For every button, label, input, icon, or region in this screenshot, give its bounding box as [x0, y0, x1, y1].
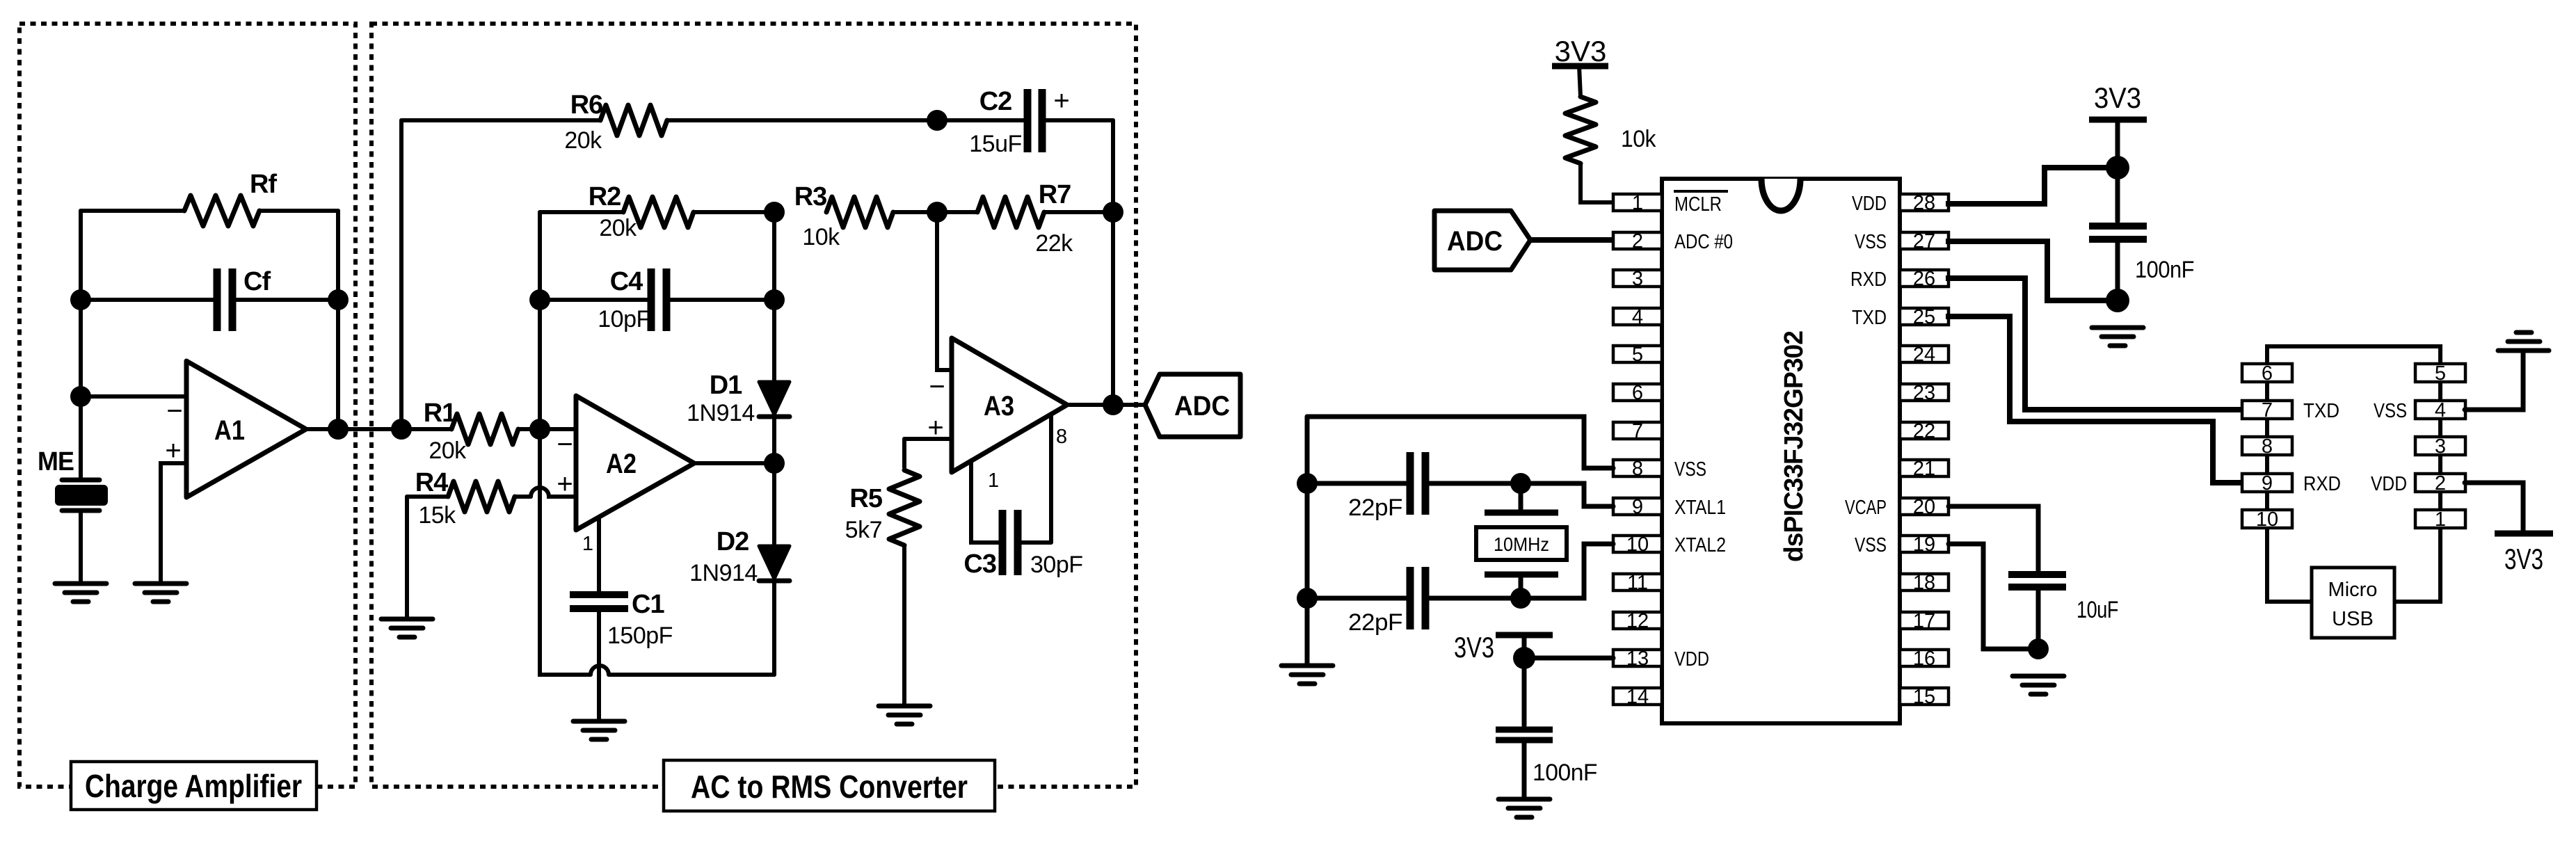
svg-text:11: 11: [1627, 572, 1648, 594]
svg-text:AC to RMS Converter: AC to RMS Converter: [691, 769, 968, 805]
ground: under 10uF: [2013, 676, 2064, 694]
svg-text:10uF: 10uF: [2077, 597, 2118, 623]
wire: to pin 28 VDD: [1949, 168, 2118, 204]
resistor R4: [407, 468, 531, 529]
USB pin 10 box: [2242, 508, 2292, 531]
pin 4 box: [1613, 306, 1662, 328]
svg-text:VDD: VDD: [1674, 648, 1709, 671]
svg-text:13: 13: [1626, 648, 1649, 670]
USB pin 2 box: [2415, 472, 2465, 495]
ground: under A1 + input: [135, 584, 186, 602]
resistor R7: [937, 180, 1113, 257]
pin 1 box: [1613, 192, 1662, 214]
node: 3V3/VDD28 junction: [2106, 156, 2129, 179]
capacitor C1 150pF: [570, 517, 673, 720]
node: XTAL2 junction: [1510, 588, 1531, 609]
svg-text:100nF: 100nF: [2135, 257, 2194, 283]
svg-text:VSS: VSS: [2374, 400, 2407, 422]
svg-text:150pF: 150pF: [607, 623, 673, 649]
IC U1 dsPIC33FJ32GP302 body: [1662, 179, 1900, 723]
pin 26 box: [1900, 268, 1949, 290]
wire: diode rail: [772, 212, 776, 675]
pin 19 box: [1900, 533, 1949, 556]
pin 20 box: [1900, 496, 1949, 518]
wire: C2/R7 right rail: [1111, 120, 1115, 405]
svg-text:XTAL1: XTAL1: [1674, 497, 1726, 519]
node: VDD junction: [1513, 647, 1535, 669]
pin 3 box: [1613, 268, 1662, 290]
svg-text:USB: USB: [2332, 608, 2374, 630]
ADC flag (AC-RMS output): [1145, 374, 1240, 437]
svg-text:16: 16: [1913, 648, 1935, 670]
svg-text:C1: C1: [632, 590, 664, 619]
wire: ME to ground: [79, 512, 83, 584]
node: 100nF bottom junction: [2106, 289, 2129, 312]
svg-text:1: 1: [2435, 508, 2446, 531]
wire: A2 output: [694, 461, 774, 465]
svg-text:C4: C4: [610, 267, 643, 296]
wire: A3 output: [1067, 403, 1145, 407]
svg-text:4: 4: [1632, 306, 1643, 328]
wire: USB VSS pin 4 to ground: [2465, 353, 2523, 410]
ADC flag (to ADC #0 pin): [1434, 211, 1530, 270]
svg-text:100nF: 100nF: [1533, 760, 1597, 786]
pin name MCLR with overline: [1674, 191, 1728, 216]
wire: VCAP pin 20 to 10uF: [1949, 506, 2038, 570]
svg-text:26: 26: [1913, 268, 1935, 290]
svg-text:18: 18: [1913, 572, 1935, 594]
svg-text:5: 5: [1632, 344, 1643, 366]
node: R2/R3 junction: [764, 202, 785, 223]
svg-text:VSS: VSS: [1674, 458, 1706, 481]
wire: feedback rail down and bottom return rail with hop: [540, 212, 774, 675]
svg-text:9: 9: [2262, 472, 2273, 495]
svg-text:R3: R3: [794, 182, 827, 211]
svg-text:6: 6: [2262, 362, 2273, 385]
ground: under R4: [381, 619, 433, 637]
Micro USB connector body: [2312, 568, 2394, 638]
USB pin 9 box: [2242, 472, 2292, 495]
node: 22pF left (top): [1297, 473, 1318, 494]
pin 10 box: [1613, 533, 1662, 556]
svg-text:10: 10: [1626, 533, 1649, 556]
pin 17 box: [1900, 610, 1949, 632]
op-amp A3: [927, 338, 1067, 492]
svg-text:1: 1: [582, 533, 593, 555]
svg-text:−: −: [557, 429, 573, 460]
resistor R2: [540, 182, 774, 241]
svg-text:TXD: TXD: [1852, 307, 1887, 329]
USB pin 6 box: [2242, 362, 2292, 385]
svg-text:Cf: Cf: [243, 267, 271, 296]
crystal 10MHz: [1476, 483, 1567, 598]
svg-text:20k: 20k: [564, 127, 602, 154]
node: inverting input junction: [70, 386, 91, 407]
capacitor 100nF (VDD decoupling): [1496, 658, 1597, 798]
wire: right feedback rail: [336, 211, 340, 429]
capacitor 100nF (right): [2089, 168, 2194, 300]
svg-text:VDD: VDD: [1852, 193, 1887, 215]
svg-text:R6: R6: [570, 90, 603, 120]
USB right column rail: [2394, 382, 2440, 602]
wire: RXD pin 26 to USB TXD pin 7: [1949, 278, 2242, 410]
wire: to pin 13: [1524, 656, 1613, 661]
wire: A1 non-inverting input to ground: [161, 463, 186, 581]
node: A2 inverting junction: [529, 419, 550, 440]
USB pin 1 box: [2415, 508, 2465, 531]
pin 14 box: [1613, 686, 1662, 708]
svg-text:dsPIC33FJ32GP302: dsPIC33FJ32GP302: [1779, 331, 1809, 562]
node: 10uF/VSS junction: [2028, 639, 2049, 659]
supply 3V3 (VDD pin 13): [1454, 631, 1553, 664]
dashed box: AC to RMS Converter block: [371, 24, 1136, 787]
supply 3V3 (top, via 10k to MCLR): [1552, 35, 1608, 67]
svg-text:VDD: VDD: [2371, 473, 2407, 495]
ground: under ME: [55, 584, 106, 602]
svg-text:C3: C3: [963, 549, 996, 579]
svg-text:22pF: 22pF: [1348, 609, 1402, 636]
svg-text:1: 1: [1632, 192, 1643, 214]
svg-text:21: 21: [1913, 458, 1935, 480]
capacitor 22pF (XTAL2): [1307, 567, 1521, 636]
ground: under right 100nF: [2092, 328, 2143, 346]
pin 27 box: [1900, 230, 1949, 252]
svg-text:D1: D1: [710, 371, 742, 400]
node: C4 right: [764, 289, 785, 310]
svg-text:VSS: VSS: [1855, 231, 1887, 253]
svg-text:2: 2: [2435, 472, 2446, 495]
wire: left feedback rail: [79, 211, 83, 479]
svg-text:R7: R7: [1039, 180, 1071, 209]
svg-text:+: +: [1053, 86, 1069, 116]
pin 8 box: [1613, 458, 1662, 480]
svg-text:R2: R2: [589, 182, 621, 211]
svg-text:10MHz: 10MHz: [1494, 533, 1549, 555]
ground: crystal rail: [1281, 666, 1333, 684]
svg-text:3V3: 3V3: [1454, 631, 1494, 664]
svg-text:25: 25: [1913, 306, 1935, 328]
node: A2 output / diode junction: [764, 453, 785, 474]
capacitor 10uF: [2008, 575, 2118, 649]
pin 18 box: [1900, 572, 1949, 594]
resistor R1: [424, 399, 576, 464]
pin 12 box: [1613, 610, 1662, 632]
svg-text:1: 1: [988, 469, 999, 492]
svg-text:15: 15: [1913, 686, 1935, 708]
svg-text:10pF: 10pF: [598, 306, 650, 332]
svg-text:23: 23: [1913, 382, 1935, 404]
svg-text:1N914: 1N914: [689, 560, 758, 586]
capacitor Cf: [81, 267, 338, 331]
ground: under 100nF: [1498, 799, 1550, 817]
svg-text:22: 22: [1913, 420, 1935, 442]
svg-text:VCAP: VCAP: [1845, 497, 1887, 519]
ground: under R5: [879, 706, 930, 724]
svg-text:VSS: VSS: [1855, 534, 1887, 556]
wire: A1 output row: [306, 427, 451, 431]
pin 13 box: [1613, 648, 1662, 670]
svg-text:8: 8: [2262, 435, 2273, 458]
svg-text:RXD: RXD: [1850, 268, 1887, 291]
svg-text:7: 7: [1632, 420, 1643, 442]
svg-text:3V3: 3V3: [2094, 81, 2141, 114]
svg-text:8: 8: [1632, 458, 1643, 480]
svg-text:10: 10: [2256, 508, 2278, 531]
dashed box: Charge Amplifier block: [19, 24, 355, 787]
microphone element ME: [38, 447, 108, 511]
svg-text:15k: 15k: [418, 502, 456, 529]
svg-text:2: 2: [1632, 230, 1643, 252]
USB pin 3 box: [2415, 435, 2465, 458]
wire: XTAL2 to pin 10: [1521, 544, 1613, 598]
resistor R5 5k7: [845, 439, 920, 705]
svg-text:12: 12: [1626, 610, 1649, 632]
USB pin 4 box: [2415, 399, 2465, 421]
svg-text:24: 24: [1913, 344, 1935, 366]
svg-text:27: 27: [1913, 230, 1935, 252]
svg-text:4: 4: [2435, 399, 2446, 421]
svg-text:30pF: 30pF: [1030, 552, 1083, 578]
node: Cf left: [70, 289, 91, 310]
svg-text:R5: R5: [849, 484, 882, 513]
svg-text:5k7: 5k7: [845, 517, 882, 543]
svg-text:17: 17: [1913, 610, 1935, 632]
wire: R4 to ground: [405, 497, 409, 618]
node: XTAL1 junction: [1510, 473, 1531, 494]
pin 28 box: [1900, 192, 1949, 214]
resistor R3: [794, 182, 937, 250]
pin 24 box: [1900, 344, 1949, 366]
svg-text:ME: ME: [38, 447, 74, 476]
svg-text:15uF: 15uF: [969, 131, 1022, 157]
svg-text:28: 28: [1913, 192, 1935, 214]
pin 15 box: [1900, 686, 1949, 708]
svg-text:3: 3: [1632, 268, 1643, 290]
svg-text:A1: A1: [214, 415, 245, 446]
svg-text:22pF: 22pF: [1348, 495, 1402, 521]
svg-text:22k: 22k: [1035, 230, 1073, 257]
svg-text:20k: 20k: [429, 437, 467, 464]
svg-text:10k: 10k: [1621, 126, 1656, 152]
capacitor C4: [540, 267, 774, 332]
svg-text:ADC #0: ADC #0: [1674, 231, 1733, 253]
resistor 10k (MCLR pullup): [1565, 66, 1656, 202]
wire: VSS pin 19 to 10uF bottom: [1949, 544, 2038, 649]
USB pin 5 box: [2415, 362, 2465, 385]
wire: USB VDD pin 2 to 3V3: [2465, 483, 2523, 531]
svg-text:R4: R4: [415, 468, 448, 497]
resistor R6: [401, 90, 937, 154]
svg-text:20k: 20k: [599, 215, 637, 241]
label box: AC to RMS Converter: [664, 760, 995, 811]
pin 9 box: [1613, 496, 1662, 518]
pin 23 box: [1900, 382, 1949, 404]
svg-text:A2: A2: [606, 449, 637, 479]
diode D2 1N914: [689, 527, 790, 586]
svg-text:1N914: 1N914: [687, 400, 755, 426]
supply 3V3 (USB): [2495, 533, 2553, 575]
op-amp A1: [165, 361, 306, 497]
svg-text:C2: C2: [979, 87, 1012, 116]
pin 16 box: [1900, 648, 1949, 670]
USB pin 8 box: [2242, 435, 2292, 458]
pin 7 box: [1613, 420, 1662, 442]
node: A1 output: [328, 419, 349, 440]
svg-text:TXD: TXD: [2303, 400, 2339, 422]
capacitor 22pF (XTAL1): [1307, 452, 1521, 521]
node: 22pF left (bottom): [1297, 588, 1318, 609]
node: C4 left: [529, 289, 550, 310]
svg-text:+: +: [927, 412, 943, 443]
svg-text:20: 20: [1913, 496, 1935, 518]
resistor Rf: [81, 170, 338, 226]
wire: XTAL1 to pin 9: [1521, 483, 1613, 506]
pin 22 box: [1900, 420, 1949, 442]
wire: to A3 inverting input: [937, 212, 952, 370]
node: C2/R6 junction: [927, 110, 947, 131]
svg-text:3V3: 3V3: [2504, 543, 2543, 575]
pin 6 box: [1613, 382, 1662, 404]
capacitor C3 30pF: [963, 415, 1082, 579]
svg-text:7: 7: [2262, 399, 2273, 421]
node: Cf right: [328, 289, 349, 310]
USB pin 7 box: [2242, 399, 2292, 421]
svg-text:8: 8: [1056, 426, 1067, 448]
ground: under C1: [573, 721, 625, 739]
node: ADC output: [1103, 394, 1123, 415]
label box: Charge Amplifier: [71, 762, 317, 810]
pin 25 box: [1900, 306, 1949, 328]
node: R6 branch: [391, 419, 412, 440]
svg-text:D2: D2: [717, 527, 749, 556]
wire: VSS rail to pin 8: [1307, 417, 1613, 468]
op-amp A2: [557, 396, 694, 555]
svg-text:XTAL2: XTAL2: [1674, 534, 1726, 556]
wire: A2 + input with hop over feedback rail: [531, 488, 576, 497]
wire: crystal left rail: [1305, 417, 1310, 664]
svg-text:14: 14: [1626, 686, 1649, 708]
svg-text:MCLR: MCLR: [1674, 193, 1722, 216]
svg-text:ADC: ADC: [1174, 391, 1230, 421]
svg-text:10k: 10k: [802, 224, 840, 250]
svg-text:+: +: [165, 435, 181, 466]
svg-text:3: 3: [2435, 435, 2446, 458]
svg-text:6: 6: [1632, 382, 1643, 404]
wire: to pin 27 VSS: [1949, 241, 2118, 300]
wire: to A1 inverting input: [81, 394, 186, 399]
svg-text:RXD: RXD: [2303, 473, 2341, 495]
svg-text:5: 5: [2435, 362, 2446, 385]
svg-text:+: +: [557, 469, 573, 499]
svg-text:Rf: Rf: [250, 170, 277, 199]
wire: rail up to R6: [399, 120, 403, 429]
pin 5 box: [1613, 344, 1662, 366]
capacitor C2 15uF: [937, 86, 1113, 157]
svg-text:Charge Amplifier: Charge Amplifier: [85, 768, 302, 804]
pin 11 box: [1613, 572, 1662, 594]
node: R3/R7/A3 junction: [927, 202, 947, 223]
svg-text:9: 9: [1632, 496, 1643, 518]
node: R7 right: [1103, 202, 1123, 223]
wire: R5 to A3 + input: [904, 437, 952, 441]
svg-text:3V3: 3V3: [1555, 35, 1607, 67]
svg-text:19: 19: [1913, 533, 1935, 556]
svg-text:−: −: [929, 371, 945, 402]
USB left column rail: [2267, 382, 2312, 602]
diode D1 1N914: [687, 371, 790, 426]
supply 3V3 (top right): [2089, 81, 2147, 168]
USB header top rail: [2267, 346, 2440, 364]
wire: TXD pin 25 to USB RXD pin 9: [1949, 316, 2242, 483]
svg-text:R1: R1: [424, 399, 456, 428]
svg-text:Micro: Micro: [2328, 579, 2378, 601]
svg-text:A3: A3: [984, 391, 1014, 421]
wire: ADC flag to pin 2: [1530, 237, 1613, 243]
svg-text:−: −: [166, 396, 182, 426]
svg-text:ADC: ADC: [1447, 226, 1503, 257]
ground: inverted above USB VSS: [2498, 332, 2549, 351]
pin 21 box: [1900, 458, 1949, 480]
pin 2 box: [1613, 230, 1662, 252]
